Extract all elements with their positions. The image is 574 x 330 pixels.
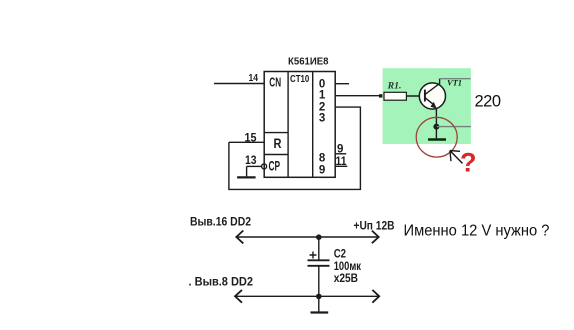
output digit 0	[319, 78, 325, 90]
output 0 stub wire	[335, 83, 349, 85]
label VT1	[447, 78, 462, 88]
svg-text:220: 220	[475, 92, 501, 110]
pin 9 stub wire	[335, 153, 346, 155]
pin 11 stub wire	[335, 165, 347, 167]
svg-text:К561ИЕ8: К561ИЕ8	[288, 57, 329, 68]
svg-text:. Выв.8 DD2: . Выв.8 DD2	[189, 274, 254, 288]
resistor R1	[384, 92, 406, 100]
emitter junction dot	[433, 124, 439, 130]
ground under transistor	[428, 127, 446, 140]
supply rail wire +Un	[236, 231, 378, 244]
output digit 9	[319, 164, 325, 176]
base wire resistor to transistor	[406, 95, 425, 97]
junction square at resistor	[379, 94, 382, 97]
supply junction dot top	[316, 234, 322, 240]
collector wire	[440, 79, 471, 84]
capacitor C2	[308, 237, 330, 296]
svg-text:?: ?	[460, 148, 477, 178]
label CT10	[290, 74, 310, 85]
annotation arrow cursor	[450, 151, 463, 164]
ground rail wire	[235, 290, 379, 303]
ground symbol bottom	[311, 296, 329, 312]
svg-text:CP: CP	[269, 158, 281, 173]
pin 14 label	[249, 73, 259, 84]
pin 11 label	[336, 156, 348, 168]
output 2 wire to R loop	[229, 107, 361, 189]
svg-text:CT10: CT10	[290, 74, 310, 85]
label CP input	[269, 158, 281, 173]
svg-text:Выв.16 DD2: Выв.16 DD2	[190, 214, 251, 228]
output digit 8	[319, 152, 326, 164]
pin 15 wire	[229, 141, 264, 143]
output digit 3	[319, 112, 325, 124]
pin 13 inversion bubble on CP	[262, 164, 267, 169]
svg-text:13: 13	[245, 155, 257, 167]
svg-text:х25В: х25В	[334, 271, 359, 285]
label Vyv.8 DD2	[189, 274, 254, 288]
svg-text:9: 9	[319, 164, 325, 176]
label K561IE8	[288, 57, 329, 68]
svg-text:11: 11	[336, 156, 348, 168]
label +Un 12V	[354, 218, 395, 232]
caption text	[404, 223, 550, 240]
svg-text:8: 8	[319, 152, 326, 164]
red query circle	[416, 117, 457, 157]
label C2	[334, 247, 347, 261]
svg-text:R: R	[274, 135, 282, 151]
label CN	[269, 75, 281, 89]
ground junction dot	[316, 294, 322, 300]
svg-text:3: 3	[319, 112, 325, 124]
svg-text:9: 9	[337, 144, 343, 156]
emitter output wire (gray)	[436, 126, 471, 128]
label 220	[475, 92, 501, 110]
svg-text:+Uп 12В: +Uп 12В	[354, 218, 395, 232]
svg-text:CN: CN	[269, 75, 281, 89]
pin 13 label	[245, 155, 257, 167]
output digit 2	[319, 101, 325, 113]
emitter wire	[435, 109, 437, 127]
clock source stub wire	[237, 166, 256, 177]
svg-text:Именно 12 V нужно ?: Именно 12 V нужно ?	[404, 223, 550, 240]
green highlight region	[383, 68, 471, 144]
label R input	[274, 135, 282, 151]
label Vyv.16 DD2	[190, 214, 251, 228]
pin 9 label	[337, 144, 343, 156]
label x25V	[334, 271, 359, 285]
transistor VT1	[419, 83, 445, 109]
label R1.	[387, 81, 402, 91]
svg-text:14: 14	[249, 73, 259, 84]
svg-text:1: 1	[319, 89, 326, 101]
pin 13 wire	[247, 165, 262, 167]
output digit 1	[319, 89, 326, 101]
label 100mk	[334, 259, 362, 273]
svg-text:15: 15	[245, 132, 258, 144]
pin 14 wire	[214, 83, 264, 85]
IC DD2 K561IE8 outline box	[264, 72, 335, 178]
capacitor plus sign	[310, 252, 317, 259]
red question mark	[460, 148, 477, 178]
pin 15 label	[245, 132, 258, 144]
svg-text:R1.: R1.	[387, 81, 402, 91]
output 1 wire to resistor	[335, 95, 380, 97]
